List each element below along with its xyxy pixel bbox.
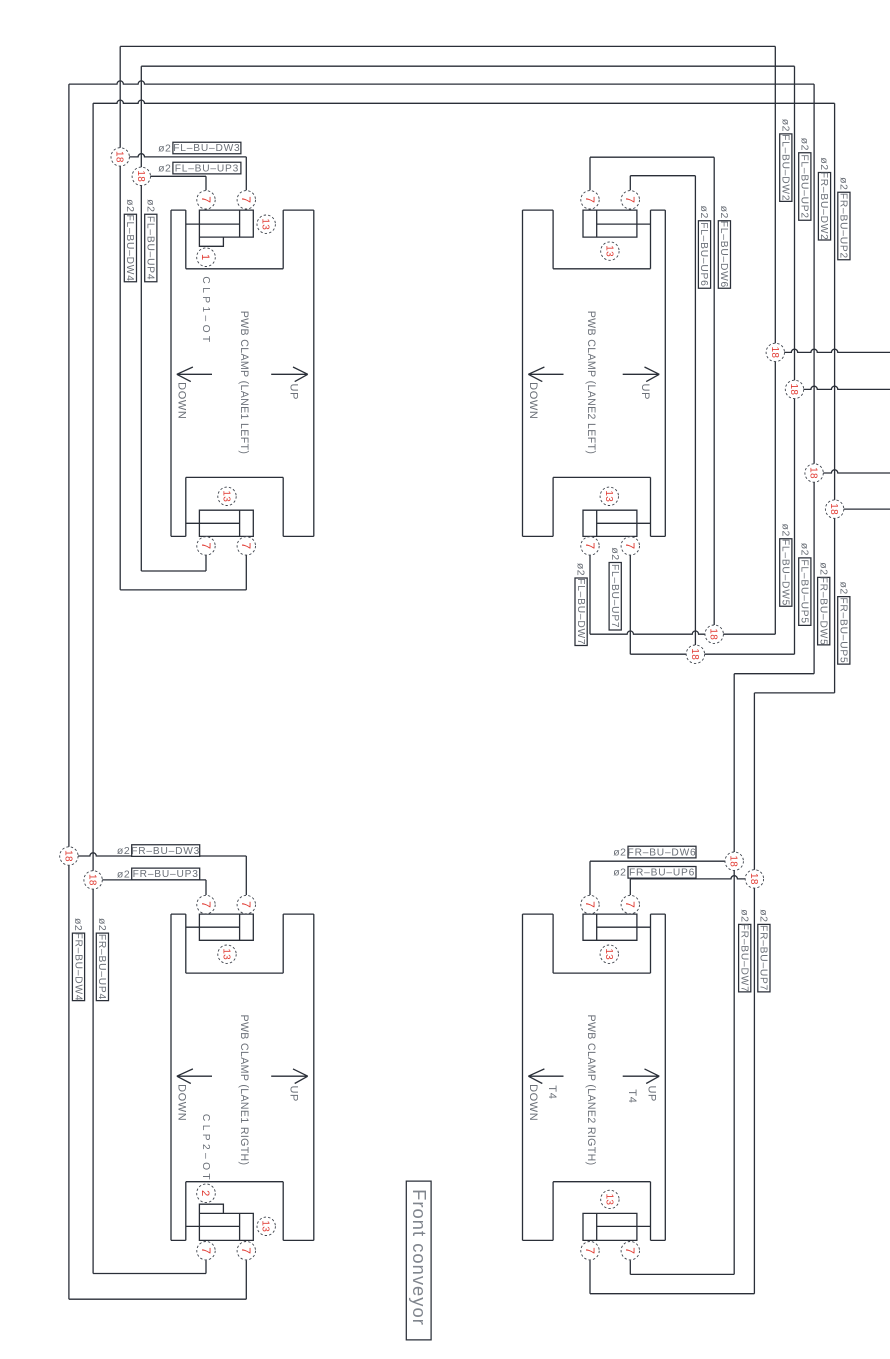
svg-text:7: 7 — [239, 901, 253, 908]
svg-text:ø2: ø2 — [718, 206, 730, 219]
svg-text:18: 18 — [708, 628, 719, 640]
svg-text:PWB CLAMP (LANE2 LEFT): PWB CLAMP (LANE2 LEFT) — [585, 311, 597, 455]
svg-text:PWB CLAMP (LANE1 LEFT): PWB CLAMP (LANE1 LEFT) — [238, 311, 250, 455]
svg-text:13: 13 — [221, 490, 232, 502]
svg-text:18: 18 — [828, 503, 839, 515]
svg-text:FR–BU–DW3: FR–BU–DW3 — [131, 846, 200, 857]
svg-text:2: 2 — [199, 1190, 211, 1196]
svg-text:7: 7 — [583, 1247, 597, 1254]
svg-text:FR–BU–DW5: FR–BU–DW5 — [817, 577, 828, 646]
svg-text:18: 18 — [87, 874, 98, 886]
svg-text:18: 18 — [728, 855, 739, 867]
svg-text:FL–BU–UP7: FL–BU–UP7 — [609, 564, 620, 628]
svg-text:FL–BU–DW6: FL–BU–DW6 — [718, 221, 729, 288]
svg-text:7: 7 — [623, 901, 637, 908]
svg-text:ø2: ø2 — [818, 157, 830, 170]
svg-text:FL–BU–DW4: FL–BU–DW4 — [124, 214, 135, 281]
svg-text:FR–BU–DW6: FR–BU–DW6 — [628, 847, 697, 858]
svg-text:FR–BU–UP2: FR–BU–UP2 — [838, 193, 849, 259]
svg-text:13: 13 — [260, 1220, 271, 1232]
svg-text:13: 13 — [603, 245, 614, 257]
svg-text:ø2: ø2 — [72, 918, 84, 931]
svg-text:ø2: ø2 — [613, 847, 626, 859]
svg-text:FR–BU–UP5: FR–BU–UP5 — [838, 597, 849, 663]
svg-text:7: 7 — [199, 196, 213, 203]
svg-text:ø2: ø2 — [738, 909, 750, 922]
svg-text:FR–BU–DW4: FR–BU–DW4 — [72, 932, 83, 1001]
svg-text:18: 18 — [808, 467, 819, 479]
svg-text:UP: UP — [646, 1085, 658, 1101]
svg-text:CLP1–OT: CLP1–OT — [200, 276, 211, 345]
svg-text:7: 7 — [239, 1247, 253, 1254]
svg-text:ø2: ø2 — [609, 547, 621, 560]
svg-text:18: 18 — [748, 873, 759, 885]
svg-text:13: 13 — [260, 218, 271, 230]
svg-text:UP: UP — [287, 384, 299, 400]
svg-text:13: 13 — [603, 948, 614, 960]
svg-text:7: 7 — [583, 196, 597, 203]
svg-text:DOWN: DOWN — [527, 382, 539, 419]
svg-text:ø2: ø2 — [613, 867, 626, 879]
svg-text:1: 1 — [199, 254, 211, 260]
svg-text:ø2: ø2 — [779, 119, 791, 132]
svg-text:ø2: ø2 — [838, 177, 850, 190]
svg-text:ø2: ø2 — [158, 163, 171, 175]
svg-text:ø2: ø2 — [817, 562, 829, 575]
svg-text:T4: T4 — [546, 1085, 558, 1099]
svg-text:FL–BU–UP5: FL–BU–UP5 — [798, 559, 809, 623]
svg-text:FL–BU–DW3: FL–BU–DW3 — [173, 143, 240, 154]
svg-text:FR–BU–UP7: FR–BU–UP7 — [758, 925, 769, 991]
svg-text:FR–BU–UP3: FR–BU–UP3 — [133, 869, 199, 880]
svg-text:7: 7 — [239, 196, 253, 203]
svg-text:ø2: ø2 — [837, 581, 849, 594]
svg-text:ø2: ø2 — [124, 199, 136, 212]
svg-text:FR–BU–DW2: FR–BU–DW2 — [818, 172, 829, 241]
svg-text:DOWN: DOWN — [527, 1084, 539, 1121]
svg-text:DOWN: DOWN — [175, 1084, 187, 1121]
svg-text:ø2: ø2 — [798, 138, 810, 151]
svg-text:FL–BU–DW5: FL–BU–DW5 — [780, 539, 791, 606]
svg-text:18: 18 — [62, 850, 73, 862]
svg-text:18: 18 — [769, 347, 780, 359]
svg-text:FL–BU–DW7: FL–BU–DW7 — [575, 578, 586, 645]
svg-text:FL–BU–UP6: FL–BU–UP6 — [698, 222, 709, 286]
svg-text:ø2: ø2 — [144, 199, 156, 212]
svg-text:13: 13 — [221, 948, 232, 960]
svg-text:FL–BU–UP4: FL–BU–UP4 — [145, 216, 156, 280]
svg-text:ø2: ø2 — [779, 524, 791, 537]
svg-text:ø2: ø2 — [117, 868, 130, 880]
svg-text:DOWN: DOWN — [175, 382, 187, 419]
svg-text:7: 7 — [199, 901, 213, 908]
svg-text:7: 7 — [623, 1247, 637, 1254]
svg-text:UP: UP — [287, 1085, 299, 1101]
svg-text:ø2: ø2 — [575, 563, 587, 576]
svg-text:13: 13 — [603, 490, 614, 502]
svg-text:ø2: ø2 — [158, 142, 171, 154]
svg-text:13: 13 — [603, 1194, 614, 1206]
svg-text:T4: T4 — [626, 1089, 638, 1103]
svg-text:Front conveyor: Front conveyor — [409, 1189, 430, 1326]
svg-text:FL–BU–UP2: FL–BU–UP2 — [799, 154, 810, 218]
svg-text:FL–BU–DW2: FL–BU–DW2 — [780, 134, 791, 201]
svg-text:PWB CLAMP (LANE2 RIGTH): PWB CLAMP (LANE2 RIGTH) — [585, 1015, 597, 1166]
svg-text:7: 7 — [623, 542, 637, 549]
svg-text:UP: UP — [639, 384, 651, 400]
svg-text:ø2: ø2 — [117, 845, 130, 857]
svg-text:FR–BU–UP6: FR–BU–UP6 — [629, 868, 695, 879]
svg-text:18: 18 — [135, 170, 146, 182]
svg-text:FR–BU–DW7: FR–BU–DW7 — [738, 924, 749, 993]
svg-text:ø2: ø2 — [96, 918, 108, 931]
svg-text:7: 7 — [583, 901, 597, 908]
svg-text:FR–BU–UP4: FR–BU–UP4 — [96, 934, 107, 1000]
svg-text:CLP2–OT: CLP2–OT — [200, 1114, 211, 1183]
svg-text:FL–BU–UP3: FL–BU–UP3 — [175, 163, 239, 174]
svg-text:ø2: ø2 — [698, 206, 710, 219]
svg-text:7: 7 — [239, 542, 253, 549]
svg-text:ø2: ø2 — [758, 909, 770, 922]
svg-text:18: 18 — [114, 151, 125, 163]
svg-text:7: 7 — [583, 542, 597, 549]
svg-text:7: 7 — [199, 542, 213, 549]
svg-text:18: 18 — [689, 648, 700, 660]
svg-text:7: 7 — [199, 1247, 213, 1254]
svg-text:PWB CLAMP (LANE1 RIGTH): PWB CLAMP (LANE1 RIGTH) — [238, 1015, 250, 1166]
svg-text:ø2: ø2 — [798, 543, 810, 556]
svg-text:7: 7 — [623, 196, 637, 203]
svg-text:18: 18 — [788, 384, 799, 396]
